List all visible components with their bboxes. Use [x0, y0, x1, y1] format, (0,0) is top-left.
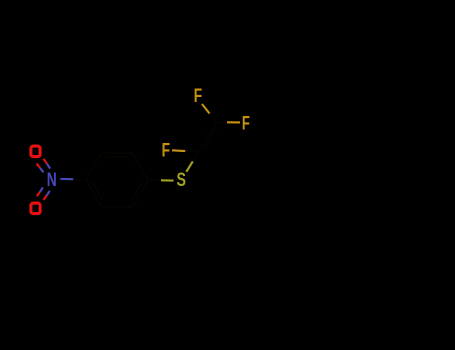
bond C1-F(left) fluorine half (gold) — [172, 149, 185, 152]
atom O2 (nitro oxygen bottom) — [31, 203, 40, 214]
bond N=O2 double (two-tone red/blue) — [37, 188, 50, 200]
bond N-C(ring) carbon half (dark) — [74, 178, 87, 180]
bond N=O1 double (two-tone red/blue) — [37, 159, 51, 173]
svg-text:N: N — [47, 170, 57, 191]
svg-text:F: F — [194, 86, 202, 107]
bond C1=C2 double (dark carbon) — [199, 122, 217, 151]
benzene ring (dark carbon) — [86, 153, 148, 207]
bond C1-F(left) carbon half (dark) — [185, 150, 198, 152]
svg-text:F: F — [162, 141, 170, 162]
bond S-C1 carbon half (dark) — [193, 151, 199, 161]
bond C2-F(top) fluorine half (gold) — [202, 104, 210, 114]
svg-text:S: S — [177, 170, 187, 191]
bond C2-F(right) carbon half (dark) — [217, 121, 228, 123]
bond C(ring)-S carbon half (dark) — [148, 179, 161, 181]
bond C2-F(right) fluorine half (gold) — [227, 121, 240, 123]
atom O1 (nitro oxygen top) — [31, 146, 40, 157]
bond C2-F(top) carbon half (dark) — [210, 114, 217, 123]
bond C(ring)-S sulfur half (olive) — [161, 179, 174, 181]
bond N-C(ring) blue half — [60, 178, 73, 180]
bond S-C1 sulfur half (olive) — [186, 161, 193, 172]
svg-text:F: F — [242, 113, 250, 134]
